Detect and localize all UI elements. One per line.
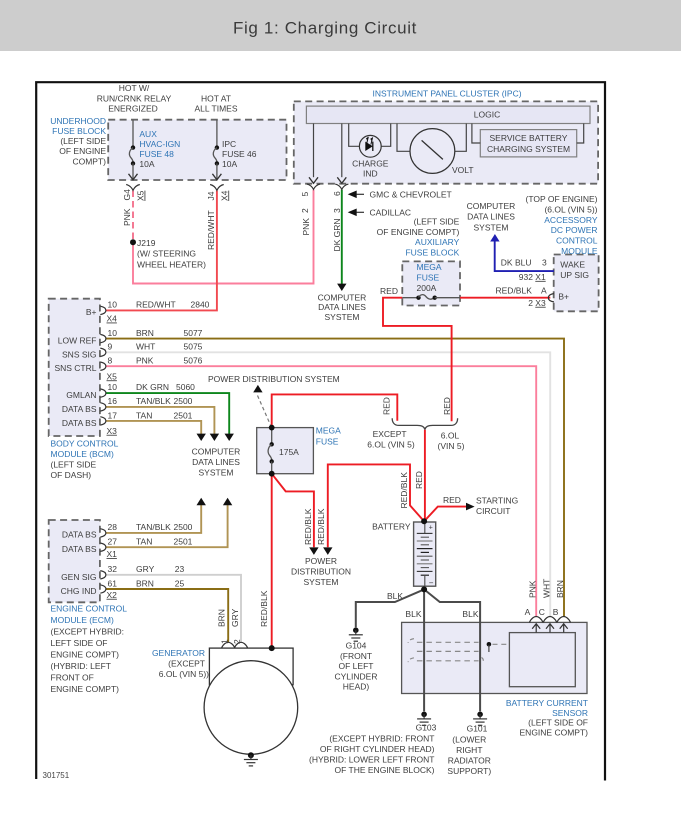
svg-text:(TOP OF ENGINE): (TOP OF ENGINE) xyxy=(526,194,598,204)
wire GRY 23 ECM to generator pin 2 xyxy=(106,575,241,643)
connector BCM pin SNS SIG xyxy=(100,348,106,356)
label top of engine accessory dc power control module xyxy=(526,194,598,256)
svg-text:WHEEL HEATER): WHEEL HEATER) xyxy=(137,259,206,269)
svg-text:DATA LINES: DATA LINES xyxy=(467,212,515,222)
svg-text:FUSE BLOCK: FUSE BLOCK xyxy=(405,247,459,257)
connector BCM pin SNS CTRL xyxy=(100,362,106,370)
svg-text:5060: 5060 xyxy=(176,382,195,392)
svg-text:SNS SIG: SNS SIG xyxy=(62,349,96,359)
svg-text:RIGHT: RIGHT xyxy=(456,745,482,755)
svg-text:932 X1: 932 X1 xyxy=(519,272,546,282)
banner xyxy=(0,0,681,51)
svg-text:(FRONT: (FRONT xyxy=(340,651,372,661)
svg-text:DK BLU: DK BLU xyxy=(501,257,532,267)
node battery negative xyxy=(421,586,427,592)
arrow DK GRN to computer data lines system xyxy=(337,284,346,291)
wire BRN 5077 BCM to sensor pin B xyxy=(106,339,564,617)
BCM pin numbers xyxy=(108,299,118,420)
svg-text:28: 28 xyxy=(108,522,118,532)
svg-text:MEGA: MEGA xyxy=(316,426,341,436)
connector sensor pin A xyxy=(529,617,543,623)
wire PNK 5076 BCM to sensor pin A xyxy=(106,366,537,616)
connector sensor pin C xyxy=(543,617,557,623)
svg-text:UP SIG: UP SIG xyxy=(560,270,589,280)
connector sensor pin B xyxy=(557,617,571,623)
svg-text:HOT W/: HOT W/ xyxy=(119,83,150,93)
IPC pin 5 arrowhead xyxy=(309,177,318,183)
node battery positive xyxy=(421,518,427,524)
svg-text:2 X3: 2 X3 xyxy=(528,298,546,308)
svg-text:BRN: BRN xyxy=(136,578,154,588)
svg-text:10: 10 xyxy=(108,328,118,338)
svg-text:SUPPORT): SUPPORT) xyxy=(447,766,491,776)
svg-text:FUSE BLOCK: FUSE BLOCK xyxy=(52,126,106,136)
svg-text:COMPUTER: COMPUTER xyxy=(467,201,516,211)
connector BCM pin B+ xyxy=(100,306,106,314)
label left side of engine compt / auxiliary fuse block xyxy=(377,217,460,258)
svg-text:2500: 2500 xyxy=(174,522,193,532)
node generator B+ terminal xyxy=(269,645,275,651)
svg-text:BODY CONTROL: BODY CONTROL xyxy=(51,439,119,449)
svg-text:10A: 10A xyxy=(222,159,237,169)
label computer data lines system (accessory) xyxy=(467,201,516,232)
arrow to power distribution system (top) xyxy=(253,385,262,393)
svg-text:STARTING: STARTING xyxy=(476,495,518,505)
svg-text:8: 8 xyxy=(108,356,113,366)
svg-text:9: 9 xyxy=(108,342,113,352)
svg-text:G104: G104 xyxy=(346,641,367,651)
svg-text:RED/BLK: RED/BLK xyxy=(496,286,533,296)
svg-text:Fig 1: Charging Circuit: Fig 1: Charging Circuit xyxy=(233,19,417,38)
svg-text:+: + xyxy=(429,525,433,532)
svg-text:6.OL: 6.OL xyxy=(441,431,460,441)
ECM wire color and circuit labels xyxy=(136,522,193,588)
svg-text:17: 17 xyxy=(108,410,118,420)
svg-text:DISTRIBUTION: DISTRIBUTION xyxy=(291,567,351,577)
svg-text:HOT AT: HOT AT xyxy=(201,94,231,104)
svg-text:WHT: WHT xyxy=(136,342,155,352)
svg-text:X4: X4 xyxy=(107,314,118,324)
svg-text:32: 32 xyxy=(108,564,118,574)
svg-text:VOLT: VOLT xyxy=(452,165,474,175)
label G101 xyxy=(447,724,491,776)
service box connection wires xyxy=(472,124,480,144)
label DK BLU 3 xyxy=(501,257,547,267)
svg-text:10: 10 xyxy=(108,382,118,392)
wire IPC logic to pin 5 xyxy=(313,124,315,178)
svg-text:J219: J219 xyxy=(137,238,156,248)
svg-text:(W/ STEERING: (W/ STEERING xyxy=(137,249,196,259)
svg-text:MODULE (BCM): MODULE (BCM) xyxy=(51,449,114,459)
svg-text:COMPT): COMPT) xyxy=(72,156,106,166)
svg-text:ENERGIZED: ENERGIZED xyxy=(108,104,158,114)
svg-text:PNK: PNK xyxy=(301,218,311,236)
svg-text:BLK: BLK xyxy=(462,609,478,619)
svg-text:(LEFT SIDE: (LEFT SIDE xyxy=(60,136,106,146)
svg-text:MODULE (ECM): MODULE (ECM) xyxy=(51,615,114,625)
svg-text:G103: G103 xyxy=(416,723,437,733)
svg-text:RED/WHT: RED/WHT xyxy=(136,299,176,309)
wire BLK battery negative to ground G104 xyxy=(356,589,424,627)
service battery charging system box xyxy=(480,130,576,157)
ground G101 xyxy=(473,712,487,726)
svg-text:CHARGING SYSTEM: CHARGING SYSTEM xyxy=(487,144,570,154)
label power distribution system (bottom) xyxy=(291,556,351,587)
svg-text:X2: X2 xyxy=(107,590,118,600)
connector ECM pin CHG IND xyxy=(100,585,106,593)
svg-text:BRN: BRN xyxy=(555,580,565,598)
svg-text:ENGINE COMPT): ENGINE COMPT) xyxy=(51,650,120,660)
svg-text:LOW REF: LOW REF xyxy=(58,336,97,346)
svg-text:TAN/BLK: TAN/BLK xyxy=(136,396,171,406)
wire DK BLU 932 accessory module to data lines arrow xyxy=(495,241,554,271)
svg-text:2: 2 xyxy=(232,639,242,644)
svg-text:200A: 200A xyxy=(417,283,437,293)
svg-text:6.OL (VIN 5): 6.OL (VIN 5) xyxy=(367,440,415,450)
callout arrow GMC & CHEVROLET xyxy=(348,191,364,199)
svg-text:(6.OL (VIN 5)): (6.OL (VIN 5)) xyxy=(544,204,597,214)
wire WHT 5075 BCM to sensor pin C xyxy=(106,352,551,616)
underhood fuse block xyxy=(108,120,286,180)
svg-text:BATTERY: BATTERY xyxy=(372,522,411,532)
svg-text:(LEFT SIDE OF: (LEFT SIDE OF xyxy=(528,718,588,728)
svg-text:ALL TIMES: ALL TIMES xyxy=(195,104,238,114)
wire RED battery to starting circuit xyxy=(424,507,466,522)
svg-text:B+: B+ xyxy=(86,307,97,317)
svg-text:61: 61 xyxy=(108,578,118,588)
svg-text:5077: 5077 xyxy=(184,328,203,338)
svg-text:25: 25 xyxy=(175,578,185,588)
svg-text:RED/BLK: RED/BLK xyxy=(316,508,326,545)
svg-text:DATA BS: DATA BS xyxy=(62,418,97,428)
svg-text:A: A xyxy=(525,607,531,617)
svg-text:(LOWER: (LOWER xyxy=(452,735,486,745)
node 175A fuse bottom xyxy=(269,471,275,477)
label G103 xyxy=(309,723,437,775)
wire RED/BLK 175A fuse to power distribution arrow xyxy=(272,474,314,548)
svg-text:175A: 175A xyxy=(279,447,299,457)
wire BRN 25 ECM to generator pin 1 xyxy=(106,589,229,642)
svg-text:CONTROL: CONTROL xyxy=(556,236,598,246)
svg-text:OF THE ENGINE BLOCK): OF THE ENGINE BLOCK) xyxy=(335,765,435,775)
label underhood fuse block xyxy=(50,116,106,166)
wire PNK dashed fuse48 to splice J219 xyxy=(132,191,134,243)
battery xyxy=(414,522,436,588)
label J219 xyxy=(137,238,206,269)
label fuse 46 xyxy=(222,139,257,169)
svg-text:(EXCEPT HYBRID: FRONT: (EXCEPT HYBRID: FRONT xyxy=(329,734,434,744)
wire RED/BLK battery positive to power distribution arrow xyxy=(328,464,424,547)
connector BCM pin DATA BS 16 xyxy=(100,403,106,411)
connector BCM pin LOW REF xyxy=(100,334,106,342)
svg-text:301751: 301751 xyxy=(43,771,70,780)
svg-text:1: 1 xyxy=(220,639,230,644)
label wake up sig xyxy=(560,259,589,280)
svg-text:RADIATOR: RADIATOR xyxy=(448,756,491,766)
sensor internal arrows pins A C B xyxy=(532,624,568,633)
svg-text:5: 5 xyxy=(300,192,310,197)
svg-text:GRY: GRY xyxy=(230,608,240,627)
svg-text:GMC & CHEVROLET: GMC & CHEVROLET xyxy=(370,189,452,199)
svg-text:RED: RED xyxy=(414,471,424,489)
svg-text:(LEFT SIDE: (LEFT SIDE xyxy=(414,217,460,227)
splice J219 xyxy=(130,239,136,245)
svg-text:OF RIGHT CYLINDER HEAD): OF RIGHT CYLINDER HEAD) xyxy=(320,744,435,754)
wire TAN 2501 BCM to data lines arrow xyxy=(106,421,202,434)
svg-text:IPC: IPC xyxy=(222,139,236,149)
svg-text:CADILLAC: CADILLAC xyxy=(370,207,412,217)
svg-text:ENGINE COMPT): ENGINE COMPT) xyxy=(51,684,120,694)
svg-text:PNK: PNK xyxy=(528,580,538,598)
svg-text:DATA LINES: DATA LINES xyxy=(318,302,366,312)
svg-text:10: 10 xyxy=(108,299,118,309)
svg-text:FUSE 46: FUSE 46 xyxy=(222,149,257,159)
wire BLK battery negative to ground G103 xyxy=(423,589,425,711)
wire IPC logic to pin 6 xyxy=(341,124,343,178)
svg-text:ENGINE CONTROL: ENGINE CONTROL xyxy=(51,604,128,614)
label body control module xyxy=(51,439,119,481)
connector BCM pin DATA BS 17 xyxy=(100,417,106,425)
ground G103 xyxy=(417,712,431,726)
svg-text:(VIN 5): (VIN 5) xyxy=(438,441,465,451)
svg-text:(EXCEPT: (EXCEPT xyxy=(168,659,205,669)
svg-text:PNK: PNK xyxy=(122,208,132,226)
BCM connector ids xyxy=(107,314,118,436)
svg-text:GEN SIG: GEN SIG xyxy=(61,572,96,582)
svg-text:X5: X5 xyxy=(136,190,146,201)
svg-text:DC POWER: DC POWER xyxy=(551,225,598,235)
svg-text:HVAC-IGN: HVAC-IGN xyxy=(139,139,180,149)
ECM connector ids xyxy=(107,549,118,600)
svg-text:G101: G101 xyxy=(467,724,488,734)
svg-text:SYSTEM: SYSTEM xyxy=(474,222,509,232)
svg-text:SYSTEM: SYSTEM xyxy=(304,577,339,587)
arrows BCM wires to computer data lines system xyxy=(197,434,206,441)
svg-text:FUSE: FUSE xyxy=(316,437,339,447)
BCM wire color and circuit labels xyxy=(136,299,210,420)
svg-text:INSTRUMENT PANEL CLUSTER (IPC): INSTRUMENT PANEL CLUSTER (IPC) xyxy=(372,89,521,99)
mega fuse 200A element xyxy=(402,295,460,300)
svg-text:16: 16 xyxy=(108,396,118,406)
svg-text:SENSOR: SENSOR xyxy=(552,708,588,718)
svg-text:RED: RED xyxy=(442,397,452,415)
wire RED/BLK to accessory module pin A xyxy=(460,297,550,299)
label RED/BLK A xyxy=(496,286,548,296)
svg-text:FRONT OF: FRONT OF xyxy=(51,673,94,683)
svg-text:BATTERY CURRENT: BATTERY CURRENT xyxy=(506,698,588,708)
svg-text:10A: 10A xyxy=(139,159,154,169)
svg-text:A: A xyxy=(541,286,547,296)
connector generator pin 1 xyxy=(221,642,235,648)
volt gauge xyxy=(397,124,466,174)
svg-text:FUSE: FUSE xyxy=(417,272,440,282)
label hot at all times xyxy=(195,94,238,114)
label except 6.0L xyxy=(367,429,415,450)
svg-text:GENERATOR: GENERATOR xyxy=(152,648,205,658)
instrument panel cluster (IPC) box xyxy=(294,101,598,183)
svg-text:DATA BS: DATA BS xyxy=(62,404,97,414)
svg-text:6.OL (VIN 5)): 6.OL (VIN 5)) xyxy=(159,669,209,679)
svg-text:CYLINDER: CYLINDER xyxy=(335,671,378,681)
label starting circuit xyxy=(476,495,518,516)
svg-text:BRN: BRN xyxy=(136,328,154,338)
ground G104 xyxy=(349,627,363,641)
svg-text:COMPUTER: COMPUTER xyxy=(318,292,367,302)
label computer data lines system (ipc) xyxy=(318,292,367,321)
svg-text:RED/BLK: RED/BLK xyxy=(259,590,269,627)
svg-text:CHARGE: CHARGE xyxy=(352,159,389,169)
svg-text:OF ENGINE: OF ENGINE xyxy=(59,146,106,156)
svg-text:EXCEPT: EXCEPT xyxy=(373,429,407,439)
svg-text:OF LEFT: OF LEFT xyxy=(339,661,374,671)
sensor clamp symbol xyxy=(408,639,509,664)
svg-text:DATA LINES: DATA LINES xyxy=(192,457,240,467)
svg-text:WHT: WHT xyxy=(541,579,551,598)
label engine control module xyxy=(51,604,128,695)
ECM pin name labels xyxy=(61,530,97,596)
label G104 xyxy=(335,641,378,692)
connector ECM pin DATA BS 27 xyxy=(100,543,106,551)
svg-text:X4: X4 xyxy=(219,190,229,201)
svg-text:DK GRN: DK GRN xyxy=(332,218,342,251)
svg-text:LOGIC: LOGIC xyxy=(474,109,500,119)
label mega fuse 200A xyxy=(417,262,442,293)
mega fuse 175A box xyxy=(257,428,314,474)
connector generator pin 2 xyxy=(234,642,248,648)
svg-text:RED/WHT: RED/WHT xyxy=(206,210,216,250)
svg-text:ENGINE COMPT): ENGINE COMPT) xyxy=(520,727,589,737)
wire TAN 2501 ECM to data lines arrow xyxy=(106,505,228,548)
label hot w/ run/crnk relay energized xyxy=(97,83,172,114)
svg-text:2: 2 xyxy=(300,208,310,213)
connector IPC pin 5 xyxy=(307,184,320,189)
arrow RED to starting circuit xyxy=(466,503,475,511)
svg-text:BRN: BRN xyxy=(217,609,227,627)
svg-text:RUN/CRNK RELAY: RUN/CRNK RELAY xyxy=(97,93,172,103)
svg-text:ACCESSORY: ACCESSORY xyxy=(544,215,598,225)
wire BLK battery negative to ground G101 xyxy=(424,589,480,711)
svg-text:(HYBRID: LOWER LEFT FRONT: (HYBRID: LOWER LEFT FRONT xyxy=(309,755,434,765)
wire RED 175A fuse to merge brace (except 6.0L) xyxy=(272,394,398,427)
wire RED 200A fuse to merge brace (6.0L) xyxy=(383,298,452,422)
svg-text:GRY: GRY xyxy=(136,564,155,574)
wire TAN/BLK 2500 BCM to data lines arrow xyxy=(106,407,215,434)
wire TAN/BLK 2500 ECM to data lines arrow xyxy=(106,505,202,533)
svg-text:(EXCEPT HYBRID:: (EXCEPT HYBRID: xyxy=(51,627,125,637)
auxiliary fuse block box (mega fuse 200A) xyxy=(402,261,460,305)
wire DK GRN 3 from IPC pin 6 to computer data lines arrow xyxy=(341,190,343,285)
svg-text:CHG IND: CHG IND xyxy=(61,586,97,596)
connector J4 X4 under fuse 46 xyxy=(210,185,224,191)
connector BCM pin GMLAN xyxy=(100,389,106,397)
svg-text:SYSTEM: SYSTEM xyxy=(325,312,360,322)
svg-text:MEGA: MEGA xyxy=(417,262,442,272)
svg-text:3: 3 xyxy=(542,257,547,267)
logic box U-LOGIC xyxy=(306,106,590,123)
engine control module (ECM) box xyxy=(49,520,100,602)
svg-text:DK GRN: DK GRN xyxy=(136,382,169,392)
svg-text:SERVICE BATTERY: SERVICE BATTERY xyxy=(490,133,568,143)
svg-text:BLK: BLK xyxy=(387,591,403,601)
svg-text:B: B xyxy=(553,607,559,617)
accessory dc power control module box (wake up sig) xyxy=(554,255,599,312)
svg-text:2501: 2501 xyxy=(174,537,193,547)
svg-text:27: 27 xyxy=(108,537,118,547)
merge brace except/6.0L xyxy=(392,418,457,429)
svg-text:TAN: TAN xyxy=(136,537,152,547)
svg-text:RED/BLK: RED/BLK xyxy=(399,472,409,509)
svg-text:OF DASH): OF DASH) xyxy=(51,470,92,480)
svg-text:G4: G4 xyxy=(122,189,132,201)
svg-text:FUSE 48: FUSE 48 xyxy=(139,149,174,159)
svg-text:RED: RED xyxy=(443,495,461,505)
label computer data lines system (bcm/ecm) xyxy=(192,447,241,478)
svg-text:(HYBRID: LEFT: (HYBRID: LEFT xyxy=(51,661,111,671)
svg-text:RED/BLK: RED/BLK xyxy=(303,508,313,545)
connector IPC pin 6 xyxy=(335,184,348,189)
svg-text:2500: 2500 xyxy=(174,396,193,406)
svg-text:6: 6 xyxy=(332,191,342,196)
svg-text:SYSTEM: SYSTEM xyxy=(199,468,234,478)
svg-text:−: − xyxy=(429,579,434,588)
wire RED/BLK 175A fuse to generator B+ xyxy=(271,474,273,648)
svg-text:RED: RED xyxy=(380,286,398,296)
svg-text:OF ENGINE COMPT): OF ENGINE COMPT) xyxy=(377,227,460,237)
arrow blue to computer data lines system (accessory) xyxy=(490,234,499,242)
connector ECM pin DATA BS 28 xyxy=(100,529,106,537)
BCM pin name labels xyxy=(54,307,96,428)
label charge ind xyxy=(352,159,389,179)
connector ECM pin GEN SIG xyxy=(100,571,106,579)
svg-text:SNS CTRL: SNS CTRL xyxy=(54,363,96,373)
svg-text:23: 23 xyxy=(175,564,185,574)
svg-text:AUX: AUX xyxy=(139,129,157,139)
svg-text:HEAD): HEAD) xyxy=(343,682,370,692)
node 175A fuse top xyxy=(269,425,275,431)
svg-text:J4: J4 xyxy=(206,191,216,200)
IPC pin 6 arrowhead xyxy=(337,177,346,183)
wire RED/WHT fuse46 to BCM pin B+ xyxy=(106,191,217,311)
connector pin A accessory module B+ xyxy=(548,294,554,302)
svg-text:POWER DISTRIBUTION SYSTEM: POWER DISTRIBUTION SYSTEM xyxy=(208,374,340,384)
generator case ground xyxy=(244,752,258,766)
svg-text:2840: 2840 xyxy=(191,299,210,309)
mega fuse 175A element xyxy=(268,428,274,474)
body control module (BCM) box xyxy=(49,299,100,436)
svg-text:COMPUTER: COMPUTER xyxy=(192,447,241,457)
label generator xyxy=(152,648,209,679)
charge indicator LED xyxy=(349,124,391,158)
battery current sensor box xyxy=(402,622,587,693)
svg-text:C: C xyxy=(539,607,545,617)
svg-text:BLK: BLK xyxy=(405,609,421,619)
svg-text:2501: 2501 xyxy=(174,410,193,420)
svg-text:RED: RED xyxy=(382,397,392,415)
label 6.0L vin 5 xyxy=(438,431,465,452)
svg-text:WAKE: WAKE xyxy=(560,259,585,269)
wire RED merge brace to battery positive xyxy=(424,430,426,522)
fuse AUX HVAC-IGN FUSE 48 10A xyxy=(129,120,138,180)
arrows ECM wires to computer data lines system xyxy=(197,498,206,506)
svg-text:CIRCUIT: CIRCUIT xyxy=(476,506,510,516)
svg-text:TAN/BLK: TAN/BLK xyxy=(136,522,171,532)
fuse IPC FUSE 46 10A xyxy=(212,120,221,180)
svg-text:(LEFT SIDE: (LEFT SIDE xyxy=(51,460,97,470)
wire DK GRN 5060 BCM GMLAN to data lines arrow xyxy=(106,393,230,434)
svg-text:MODULE: MODULE xyxy=(561,246,598,256)
svg-text:X1: X1 xyxy=(107,549,118,559)
label battery current sensor xyxy=(506,698,588,737)
